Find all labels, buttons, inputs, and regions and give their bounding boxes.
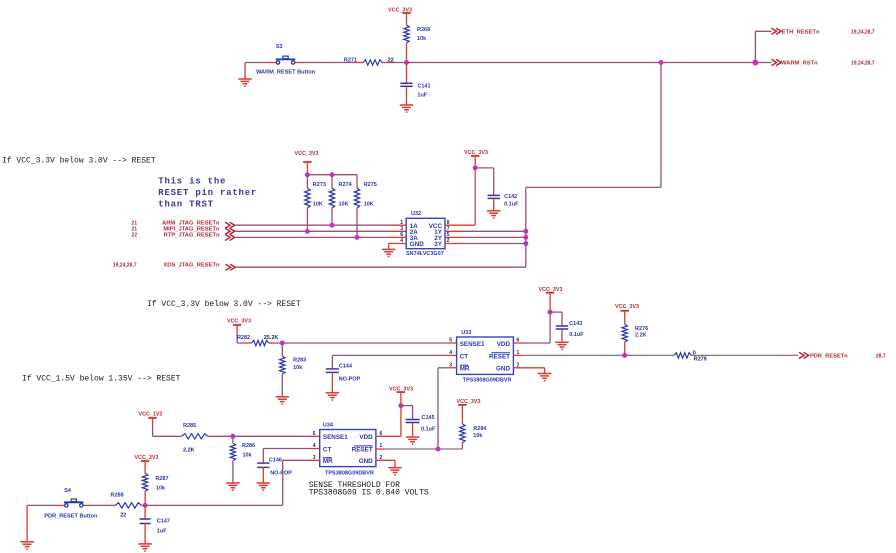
svg-text:MR: MR (323, 458, 333, 465)
svg-text:3: 3 (400, 226, 403, 232)
svg-text:ARM_JTAG_RESETn: ARM_JTAG_RESETn (162, 220, 220, 226)
svg-text:This is the: This is the (158, 177, 226, 187)
svg-text:5: 5 (313, 431, 316, 437)
svg-text:10K: 10K (313, 202, 323, 208)
svg-text:R288: R288 (111, 493, 124, 499)
svg-text:VCC_3V3: VCC_3V3 (539, 287, 563, 293)
svg-text:If VCC_3.3V below 3.0V --> RES: If VCC_3.3V below 3.0V --> RESET (2, 156, 156, 165)
svg-text:VCC_3V3: VCC_3V3 (295, 151, 319, 157)
svg-text:NO-POP: NO-POP (270, 471, 292, 477)
svg-text:TPS3808G09 IS 0.840 VOLTS: TPS3808G09 IS 0.840 VOLTS (309, 489, 429, 498)
svg-text:6: 6 (400, 232, 403, 238)
svg-text:C144: C144 (339, 364, 353, 370)
svg-text:NO-POP: NO-POP (339, 376, 361, 382)
svg-text:R271: R271 (344, 57, 357, 63)
svg-text:5: 5 (449, 338, 452, 344)
svg-text:10k: 10k (156, 485, 166, 491)
svg-text:0.1uF: 0.1uF (569, 332, 584, 338)
svg-text:0.1uF: 0.1uF (421, 426, 436, 432)
svg-text:10k: 10k (293, 365, 303, 371)
svg-text:XDS_JTAG_RESETn: XDS_JTAG_RESETn (163, 262, 220, 268)
svg-text:MR: MR (460, 366, 470, 373)
svg-text:CT: CT (460, 353, 469, 360)
svg-text:If VCC_1.5V below 1.35V --> RE: If VCC_1.5V below 1.35V --> RESET (22, 374, 181, 383)
svg-text:1: 1 (400, 220, 403, 226)
svg-text:R284: R284 (473, 426, 487, 432)
svg-text:U34: U34 (323, 423, 334, 429)
svg-text:VDD: VDD (359, 434, 373, 441)
svg-text:VCC_3V3: VCC_3V3 (389, 386, 413, 392)
svg-text:19,24,28,7: 19,24,28,7 (851, 61, 875, 67)
svg-text:U32: U32 (411, 211, 421, 217)
svg-text:2.2K: 2.2K (183, 448, 195, 454)
svg-text:4: 4 (449, 350, 452, 356)
svg-text:TPS3808G09DBVR: TPS3808G09DBVR (463, 377, 512, 383)
svg-text:S4: S4 (64, 488, 72, 494)
svg-text:CT: CT (323, 446, 332, 453)
svg-text:R273: R273 (313, 182, 326, 188)
svg-text:22: 22 (120, 513, 126, 519)
svg-text:25.2K: 25.2K (264, 335, 279, 341)
svg-text:1: 1 (380, 443, 383, 449)
svg-text:PDR_RESETn: PDR_RESETn (810, 353, 848, 359)
svg-text:TPS3808G09DBVR: TPS3808G09DBVR (325, 470, 374, 476)
svg-text:VCC_3V3: VCC_3V3 (615, 304, 639, 310)
svg-text:C141: C141 (417, 83, 430, 89)
svg-text:than TRST: than TRST (158, 199, 214, 209)
svg-text:GND: GND (410, 241, 424, 248)
svg-text:19,24,28,7: 19,24,28,7 (113, 262, 137, 268)
svg-text:MIPI_JTAG_RESETn: MIPI_JTAG_RESETn (163, 226, 220, 232)
svg-text:GND: GND (359, 458, 373, 465)
svg-text:10k: 10k (417, 36, 427, 42)
svg-text:SENSE1: SENSE1 (460, 341, 485, 348)
svg-text:VCC_1V2: VCC_1V2 (139, 412, 163, 418)
svg-text:VDD: VDD (497, 341, 511, 348)
svg-text:VCC_3V3: VCC_3V3 (135, 455, 159, 461)
svg-text:R283: R283 (293, 358, 306, 364)
svg-text:R275: R275 (364, 182, 377, 188)
svg-text:RESET pin rather: RESET pin rather (158, 188, 257, 198)
svg-text:10K: 10K (364, 202, 374, 208)
svg-text:ETH_RESETn: ETH_RESETn (782, 29, 820, 35)
svg-text:1uF: 1uF (157, 529, 167, 535)
svg-text:2.2K: 2.2K (635, 333, 647, 339)
svg-text:VCC_3V3: VCC_3V3 (457, 399, 481, 405)
svg-text:22: 22 (388, 57, 394, 63)
svg-text:C145: C145 (422, 415, 435, 421)
svg-text:RTP_JTAG_RESETn: RTP_JTAG_RESETn (164, 233, 220, 239)
svg-text:WARM_RSTn: WARM_RSTn (781, 61, 818, 67)
svg-text:R279: R279 (694, 356, 707, 362)
svg-text:R285: R285 (183, 423, 196, 429)
svg-text:1uF: 1uF (417, 92, 427, 98)
svg-text:10K: 10K (339, 202, 349, 208)
svg-text:10k: 10k (243, 453, 253, 459)
svg-text:S3: S3 (276, 44, 283, 50)
svg-text:RESET: RESET (489, 353, 510, 360)
svg-text:4: 4 (313, 443, 316, 449)
svg-text:R286: R286 (242, 443, 255, 449)
svg-text:R276: R276 (635, 326, 648, 332)
svg-text:C143: C143 (569, 321, 582, 327)
svg-text:22: 22 (131, 233, 137, 239)
svg-text:0.1uF: 0.1uF (504, 201, 519, 207)
svg-text:10k: 10k (473, 433, 483, 439)
svg-text:R274: R274 (339, 182, 353, 188)
svg-text:If VCC_3.3V below 3.0V --> RES: If VCC_3.3V below 3.0V --> RESET (147, 300, 301, 309)
svg-text:PDR_RESET Button: PDR_RESET Button (44, 514, 98, 520)
svg-text:VCC_3V3: VCC_3V3 (388, 7, 412, 13)
svg-text:19,24,28,7: 19,24,28,7 (851, 29, 875, 35)
svg-text:VCC_3V3: VCC_3V3 (464, 150, 488, 156)
svg-text:SN74LVC3G07: SN74LVC3G07 (406, 251, 444, 257)
svg-text:C142: C142 (504, 194, 517, 200)
svg-text:GND: GND (496, 366, 510, 373)
svg-text:21: 21 (131, 220, 137, 226)
svg-text:C147: C147 (157, 519, 170, 525)
svg-text:21: 21 (131, 226, 137, 232)
svg-text:3Y: 3Y (434, 241, 443, 248)
svg-text:U33: U33 (461, 330, 471, 336)
svg-text:R287: R287 (155, 476, 168, 482)
svg-text:SENSE1: SENSE1 (323, 434, 348, 441)
svg-text:28,7: 28,7 (876, 353, 886, 359)
svg-text:R268: R268 (417, 27, 430, 33)
svg-text:C146: C146 (269, 458, 282, 464)
svg-text:VCC_3V3: VCC_3V3 (227, 319, 251, 325)
svg-text:RESET: RESET (352, 446, 373, 453)
svg-text:R282: R282 (237, 335, 250, 341)
svg-text:WARM_RESET Button: WARM_RESET Button (256, 70, 316, 76)
